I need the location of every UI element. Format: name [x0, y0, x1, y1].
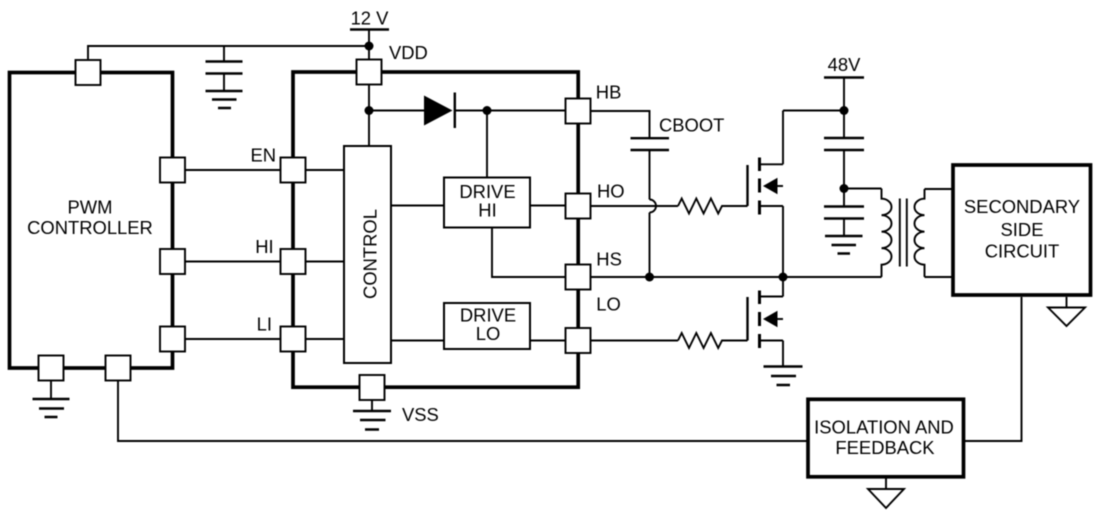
- svg-text:SIDE: SIDE: [1001, 219, 1044, 240]
- svg-text:HI: HI: [255, 236, 273, 257]
- svg-text:LI: LI: [257, 314, 272, 335]
- svg-text:CIRCUIT: CIRCUIT: [985, 241, 1060, 262]
- svg-text:SECONDARY: SECONDARY: [964, 196, 1080, 217]
- svg-text:HO: HO: [597, 180, 625, 201]
- svg-text:ISOLATION AND: ISOLATION AND: [814, 417, 954, 438]
- svg-text:HB: HB: [596, 81, 622, 102]
- svg-text:HS: HS: [596, 249, 622, 270]
- svg-text:CONTROL: CONTROL: [359, 209, 380, 299]
- svg-text:PWM: PWM: [68, 197, 113, 218]
- svg-text:EN: EN: [250, 144, 276, 165]
- svg-text:LO: LO: [596, 293, 621, 314]
- svg-text:VSS: VSS: [402, 404, 439, 425]
- svg-text:CONTROLLER: CONTROLLER: [27, 217, 153, 238]
- svg-text:HI: HI: [478, 199, 496, 220]
- svg-text:12 V: 12 V: [351, 8, 390, 29]
- svg-text:FEEDBACK: FEEDBACK: [835, 437, 935, 458]
- svg-text:CBOOT: CBOOT: [659, 115, 724, 136]
- svg-text:48V: 48V: [828, 54, 861, 75]
- svg-text:VDD: VDD: [389, 42, 428, 63]
- svg-text:LO: LO: [476, 323, 501, 344]
